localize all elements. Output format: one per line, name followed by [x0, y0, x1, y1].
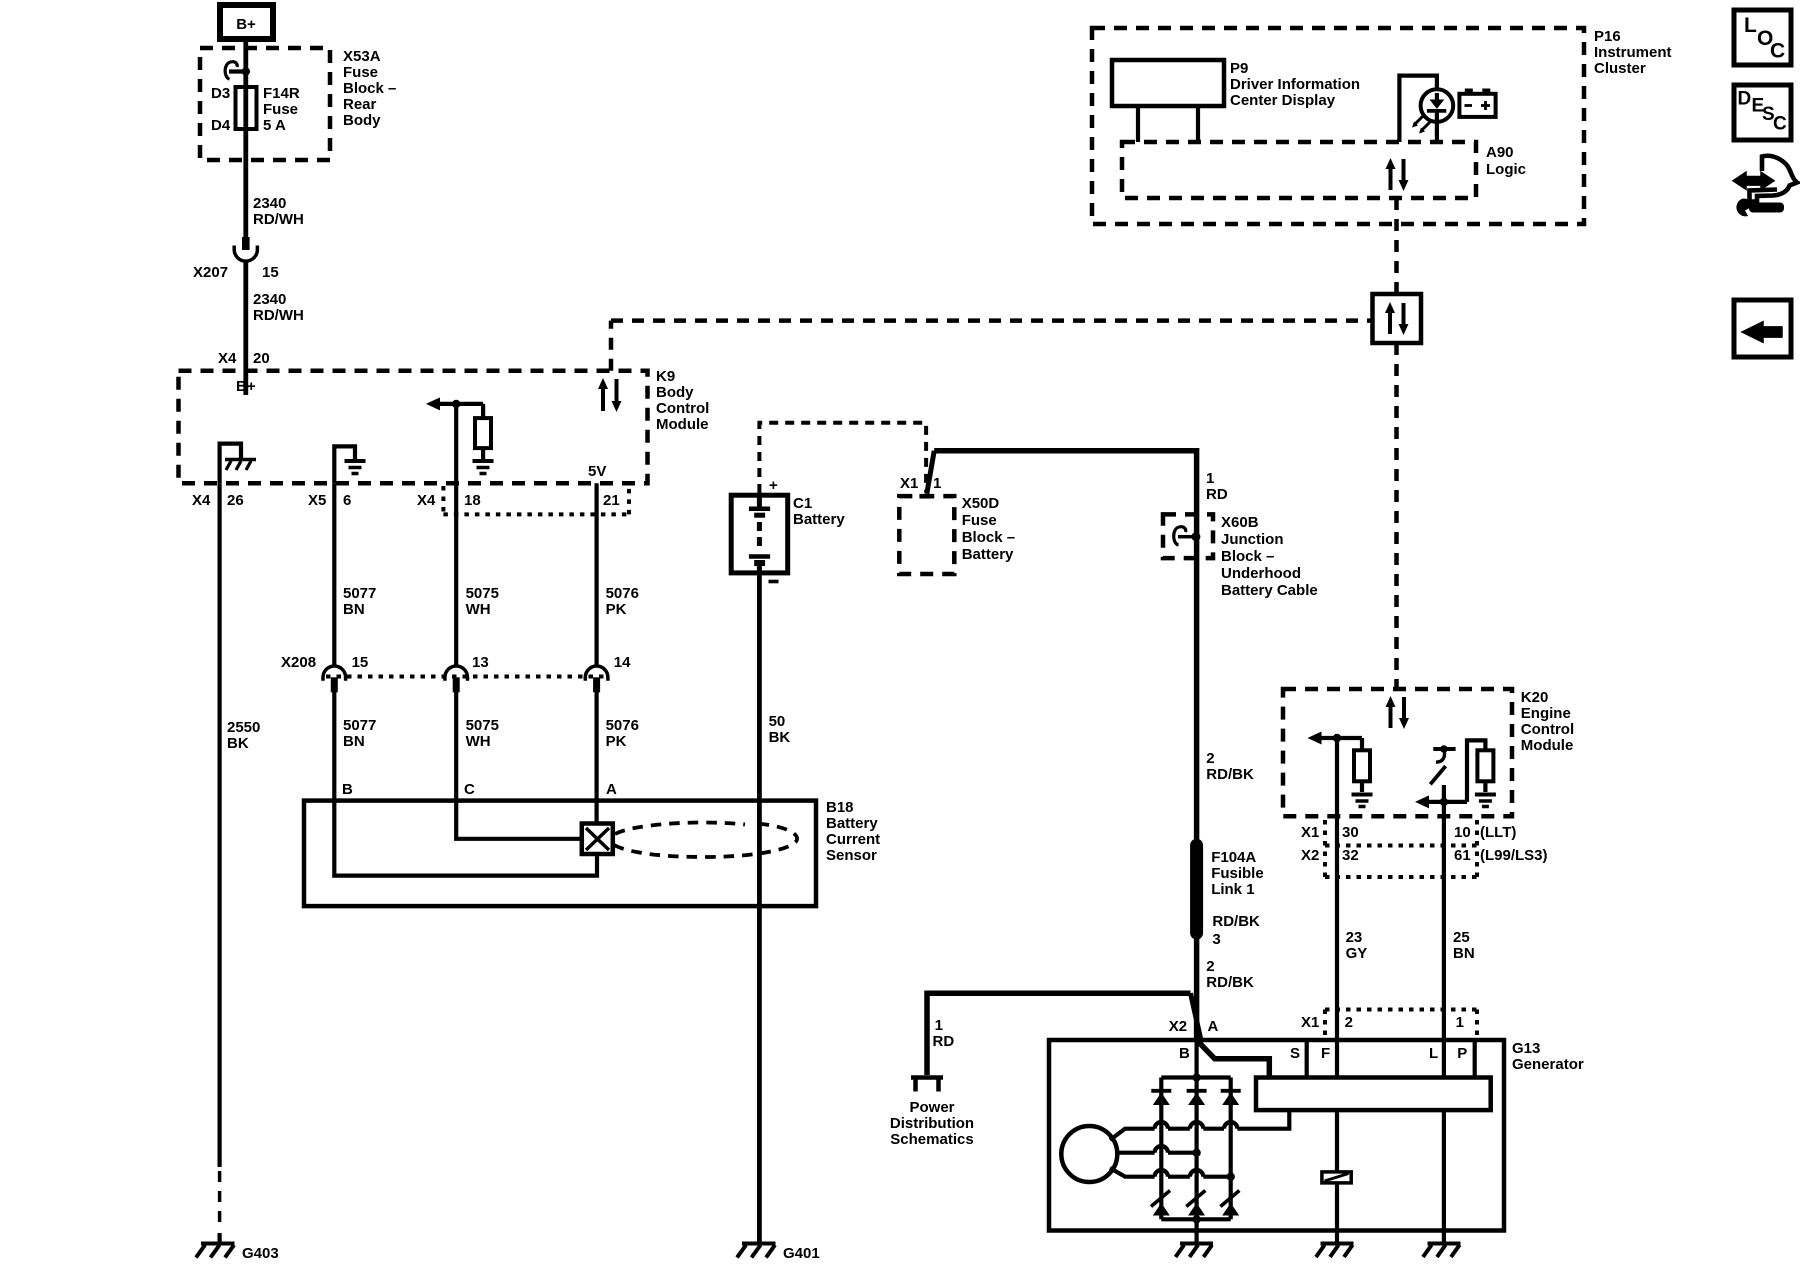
serial data arrows in A90: [1386, 158, 1409, 191]
svg-text:B+: B+: [236, 378, 256, 395]
svg-text:20: 20: [253, 350, 270, 367]
battery C1: [731, 477, 845, 582]
svg-text:Block –: Block –: [1221, 548, 1274, 565]
serial data dashed down to K20: [1394, 343, 1399, 689]
body control module K9 box: [179, 368, 710, 483]
dotted harness line X208: [326, 675, 605, 679]
svg-text:F14R: F14R: [263, 85, 300, 102]
rotor circle: [1061, 1126, 1117, 1182]
svg-text:Generator: Generator: [1512, 1056, 1584, 1073]
svg-text:P16: P16: [1594, 28, 1621, 45]
svg-text:L: L: [1744, 14, 1757, 37]
svg-text:2340: 2340: [253, 195, 286, 212]
wire X207 to BCM pin X4-20: [243, 263, 248, 371]
connector X207 pin 15: [193, 237, 279, 281]
wire 5076 PK X208 to B18 pin A: [597, 690, 639, 801]
svg-text:PK: PK: [606, 601, 627, 618]
svg-text:Module: Module: [1521, 737, 1574, 754]
svg-text:5V: 5V: [588, 463, 606, 480]
regulator bar: [1256, 1078, 1491, 1111]
wire K20 pin 10 internal branch: [1415, 740, 1485, 816]
rectifier legs: [1161, 1078, 1230, 1220]
instrument cluster P16 box: [1092, 28, 1672, 224]
svg-text:5076: 5076: [606, 717, 639, 734]
svg-text:Power: Power: [909, 1099, 954, 1116]
svg-text:B: B: [1179, 1045, 1190, 1062]
wire K20 pin 30 internal branch: [1308, 732, 1363, 817]
svg-text:Fusible: Fusible: [1211, 865, 1264, 882]
svg-text:D3: D3: [211, 85, 230, 102]
svg-text:Link 1: Link 1: [1211, 881, 1254, 898]
ground G403: [196, 1244, 279, 1263]
svg-text:X50D: X50D: [962, 495, 1000, 512]
svg-text:C: C: [1770, 40, 1785, 63]
stator winding row 1: [1110, 1110, 1289, 1140]
svg-text:WH: WH: [466, 733, 491, 750]
wire B terminal down to rectifier: [1194, 1040, 1198, 1078]
svg-text:X4: X4: [218, 350, 237, 367]
connector X208 pin 15: [281, 654, 368, 692]
svg-text:RD/BK: RD/BK: [1206, 766, 1254, 783]
wire 50 BK battery negative: [759, 573, 790, 1243]
svg-text:Current: Current: [826, 831, 880, 848]
sensor loop dashed ellipse: [614, 824, 797, 858]
svg-text:RD/BK: RD/BK: [1212, 913, 1260, 930]
earth ground in K9 pin6: [345, 461, 366, 474]
wire 2550 BK from pin 26 down: [220, 483, 261, 1243]
svg-text:G403: G403: [242, 1245, 279, 1262]
svg-text:X207: X207: [193, 264, 228, 281]
svg-text:P9: P9: [1230, 60, 1248, 77]
svg-text:Module: Module: [656, 416, 709, 433]
earth ground K20 right: [1475, 795, 1496, 807]
svg-text:2550: 2550: [227, 719, 260, 736]
connector X208 pin 13: [445, 654, 489, 692]
wire BCM pin 26 internal to chassis ground: [220, 444, 241, 484]
svg-text:Center Display: Center Display: [1230, 92, 1336, 109]
svg-text:Schematics: Schematics: [890, 1131, 973, 1148]
svg-text:Block –: Block –: [343, 80, 396, 97]
svg-text:X2: X2: [1169, 1018, 1187, 1035]
svg-text:X1: X1: [1301, 1014, 1319, 1031]
svg-text:Battery Cable: Battery Cable: [1221, 582, 1318, 599]
svg-text:5075: 5075: [466, 717, 499, 734]
connector X208 pin 14: [585, 654, 631, 692]
svg-text:D: D: [1738, 89, 1752, 110]
svg-text:15: 15: [352, 654, 369, 671]
icon LOC: [1734, 10, 1791, 65]
svg-text:Driver Information: Driver Information: [1230, 76, 1360, 93]
svg-text:RD: RD: [1206, 486, 1228, 503]
svg-text:WH: WH: [466, 601, 491, 618]
svg-text:F: F: [1321, 1045, 1330, 1062]
logic module A90 box: [1122, 142, 1526, 198]
svg-text:Cluster: Cluster: [1594, 60, 1646, 77]
stator winding row 3: [1110, 1168, 1235, 1181]
node B+ power feed: [220, 5, 273, 39]
svg-text:2: 2: [1206, 958, 1214, 975]
svg-text:1: 1: [1206, 470, 1214, 487]
svg-text:A90: A90: [1486, 144, 1514, 161]
svg-text:D4: D4: [211, 117, 231, 134]
field winding coil: [1322, 1172, 1351, 1183]
top diodes: [1151, 1091, 1240, 1105]
bottom avalanche diodes: [1151, 1191, 1239, 1216]
wire battery cable X50D to X60B to generator: [934, 451, 1228, 1040]
svg-text:14: 14: [614, 654, 631, 671]
svg-text:(LLT): (LLT): [1480, 824, 1516, 841]
K20 pin labels X2 32 61 L99/LS3: [1301, 847, 1548, 864]
svg-text:C: C: [464, 781, 475, 798]
svg-text:GY: GY: [1346, 945, 1368, 962]
wire 25 BN pin10 to generator L: [1444, 816, 1475, 1040]
svg-text:Fuse: Fuse: [343, 64, 378, 81]
svg-text:RD/BK: RD/BK: [1206, 974, 1254, 991]
svg-text:BN: BN: [1453, 945, 1475, 962]
chassis ground in K9: [225, 460, 256, 471]
fusible link F104A: [1192, 840, 1264, 948]
wire 5077 BN pin 6 to X208: [334, 483, 376, 665]
svg-text:X208: X208: [281, 654, 316, 671]
svg-text:G13: G13: [1512, 1040, 1540, 1057]
battery telltale indicator lamp: [1399, 76, 1453, 142]
svg-text:(L99/LS3): (L99/LS3): [1480, 847, 1548, 864]
svg-text:X5: X5: [308, 492, 326, 509]
junction block X60B: [1163, 514, 1318, 599]
svg-text:B: B: [342, 781, 353, 798]
svg-text:50: 50: [769, 713, 786, 730]
wire B terminal to regulator: [1197, 1040, 1270, 1078]
svg-text:Sensor: Sensor: [826, 847, 877, 864]
svg-text:Fuse: Fuse: [263, 101, 298, 118]
svg-text:Junction: Junction: [1221, 531, 1284, 548]
svg-text:10: 10: [1454, 824, 1471, 841]
svg-text:23: 23: [1346, 929, 1363, 946]
resistor K20 right: [1477, 750, 1493, 781]
generator connector labels X1 2 1: [1301, 1010, 1477, 1037]
svg-text:RD/WH: RD/WH: [253, 307, 304, 324]
wire 5076 PK pin 21 to X208: [597, 483, 639, 665]
generator internal ground left: [1176, 1244, 1214, 1258]
generator G13 box: [1049, 1040, 1584, 1231]
svg-text:A: A: [606, 781, 617, 798]
wire BCM pin 18 internal branch: [426, 397, 483, 483]
svg-text:X2: X2: [1301, 847, 1319, 864]
svg-text:2: 2: [1345, 1014, 1353, 1031]
svg-text:5077: 5077: [343, 717, 376, 734]
svg-text:BK: BK: [769, 729, 791, 746]
engine control module K20 box: [1283, 689, 1574, 816]
wire 5075 WH X208 to B18 pin C: [456, 690, 499, 801]
driver information center display P9: [1112, 60, 1360, 142]
generator terminal ticks S and P: [1307, 1040, 1475, 1078]
svg-text:K9: K9: [656, 368, 675, 385]
svg-text:C: C: [1773, 114, 1787, 135]
rectifier bottom rail: [1161, 1215, 1230, 1243]
svg-text:Engine: Engine: [1521, 705, 1571, 722]
svg-text:2: 2: [1206, 750, 1214, 767]
svg-text:Battery: Battery: [962, 546, 1014, 563]
serial data arrows in K20: [1386, 696, 1410, 729]
serial data dashed line BCM to cluster: [611, 321, 1373, 371]
label Power Distribution Schematics: [890, 1099, 974, 1148]
svg-text:X4: X4: [417, 492, 436, 509]
svg-text:5075: 5075: [466, 585, 499, 602]
eyelet terminal in X53A: [225, 62, 250, 79]
svg-text:6: 6: [343, 492, 351, 509]
wire field coil to ground: [1335, 1183, 1339, 1243]
wire B+ feed down through fuse: [243, 39, 248, 87]
svg-text:15: 15: [262, 264, 279, 281]
earth ground K20 left: [1352, 795, 1373, 807]
wire label 2 RD/BK upper: [1206, 750, 1254, 783]
node B+ stub inside K9: [236, 371, 256, 395]
svg-text:RD: RD: [933, 1033, 955, 1050]
svg-text:F104A: F104A: [1211, 849, 1256, 866]
svg-text:Logic: Logic: [1486, 161, 1526, 178]
resistor in K9: [475, 418, 491, 448]
svg-text:P: P: [1457, 1045, 1467, 1062]
serial data arrows in K9: [598, 378, 622, 412]
svg-text:X1: X1: [900, 475, 918, 492]
wire 5075 WH pin 18 to X208: [456, 483, 499, 665]
svg-text:3: 3: [1212, 931, 1220, 948]
wire L terminal to regulator and P to ground: [1442, 1040, 1446, 1243]
wire 23 GY pin30 to generator F: [1337, 816, 1367, 1040]
wire battery positive dashed to X50D: [759, 423, 932, 497]
icon back arrow: [1734, 300, 1791, 357]
generator internal ground middle: [1316, 1244, 1354, 1258]
off-page fork symbol: [911, 1078, 943, 1092]
svg-text:5 A: 5 A: [263, 117, 286, 134]
svg-text:5077: 5077: [343, 585, 376, 602]
wire fuse to X207: [243, 129, 248, 238]
svg-text:26: 26: [227, 492, 244, 509]
svg-text:1: 1: [1456, 1014, 1464, 1031]
battery icon in cluster: [1459, 89, 1495, 117]
B18 internal wires: [334, 801, 597, 876]
svg-text:32: 32: [1342, 847, 1359, 864]
svg-text:Control: Control: [1521, 721, 1574, 738]
icon DESC: [1734, 85, 1791, 140]
svg-text:Block –: Block –: [962, 529, 1015, 546]
svg-text:+: +: [769, 477, 778, 494]
fuse block X53A box: [200, 48, 396, 160]
svg-text:2340: 2340: [253, 291, 286, 308]
svg-text:X53A: X53A: [343, 48, 381, 65]
dotted connector brackets K20 pins: [1325, 820, 1477, 878]
svg-text:Distribution: Distribution: [890, 1115, 974, 1132]
serial data dashed cluster to splice box: [1394, 198, 1399, 294]
svg-text:Underhood: Underhood: [1221, 565, 1301, 582]
serial data junction box symbol: [1373, 294, 1422, 343]
svg-text:RD/WH: RD/WH: [253, 211, 304, 228]
connector X1 1 at X50D: [900, 451, 941, 494]
svg-text:Fuse: Fuse: [962, 512, 997, 529]
svg-text:30: 30: [1342, 824, 1359, 841]
stator winding row 2: [1117, 1146, 1201, 1157]
icon jump with wrench: [1733, 156, 1797, 217]
svg-text:PK: PK: [606, 733, 627, 750]
svg-text:25: 25: [1453, 929, 1470, 946]
svg-text:X60B: X60B: [1221, 514, 1259, 531]
svg-text:BN: BN: [343, 601, 365, 618]
svg-text:BN: BN: [343, 733, 365, 750]
fuse F14R 5A: [211, 85, 300, 134]
K20 pin labels X1 30 10 LLT: [1301, 824, 1516, 841]
svg-text:B18: B18: [826, 799, 854, 816]
ground G401: [737, 1244, 820, 1263]
rectifier top rail: [1161, 1073, 1230, 1081]
current sensor element X-box: [582, 824, 613, 855]
svg-text:G401: G401: [783, 1245, 820, 1262]
switch in K20: [1430, 745, 1455, 784]
svg-text:Control: Control: [656, 400, 709, 417]
wire label 2 RD/BK lower: [1206, 958, 1254, 991]
svg-text:C1: C1: [793, 495, 812, 512]
wire F terminal through regulator to field coil: [1335, 1040, 1339, 1172]
svg-text:21: 21: [603, 492, 620, 509]
svg-text:Instrument: Instrument: [1594, 44, 1672, 61]
dotted connector box pins 18-21: [443, 486, 629, 514]
wire 5077 BN X208 to B18 pin B: [334, 690, 376, 801]
wire BCM pin 6 internal to ground: [334, 446, 355, 483]
svg-text:Battery: Battery: [793, 511, 845, 528]
svg-text:BK: BK: [227, 735, 249, 752]
battery current sensor B18 box: [304, 799, 880, 906]
svg-text:Body: Body: [656, 384, 694, 401]
svg-text:A: A: [1208, 1018, 1219, 1035]
svg-text:S: S: [1290, 1045, 1300, 1062]
svg-text:X1: X1: [1301, 824, 1319, 841]
svg-text:1: 1: [935, 1017, 943, 1034]
svg-text:K20: K20: [1521, 689, 1549, 706]
svg-text:13: 13: [472, 654, 489, 671]
svg-text:L: L: [1429, 1045, 1438, 1062]
svg-text:61: 61: [1454, 847, 1471, 864]
svg-text:B+: B+: [236, 16, 256, 33]
generator terminal labels B S F L P: [1179, 1045, 1467, 1062]
fuse block battery X50D box: [899, 495, 1015, 574]
resistor K20 left: [1354, 750, 1370, 781]
svg-text:Body: Body: [343, 112, 381, 129]
svg-text:Battery: Battery: [826, 815, 878, 832]
svg-text:1: 1: [933, 475, 941, 492]
connector X2 A labels at generator: [1169, 1018, 1219, 1035]
generator internal ground right: [1423, 1244, 1461, 1258]
BCM pin labels X4 26 X5 6 X4 18 21: [192, 492, 620, 509]
earth ground in K9 pin18: [473, 461, 494, 474]
wire 1 RD stub to power distribution: [927, 993, 1201, 1075]
svg-text:18: 18: [464, 492, 481, 509]
svg-text:X4: X4: [192, 492, 211, 509]
svg-text:5076: 5076: [606, 585, 639, 602]
svg-text:Rear: Rear: [343, 96, 377, 113]
